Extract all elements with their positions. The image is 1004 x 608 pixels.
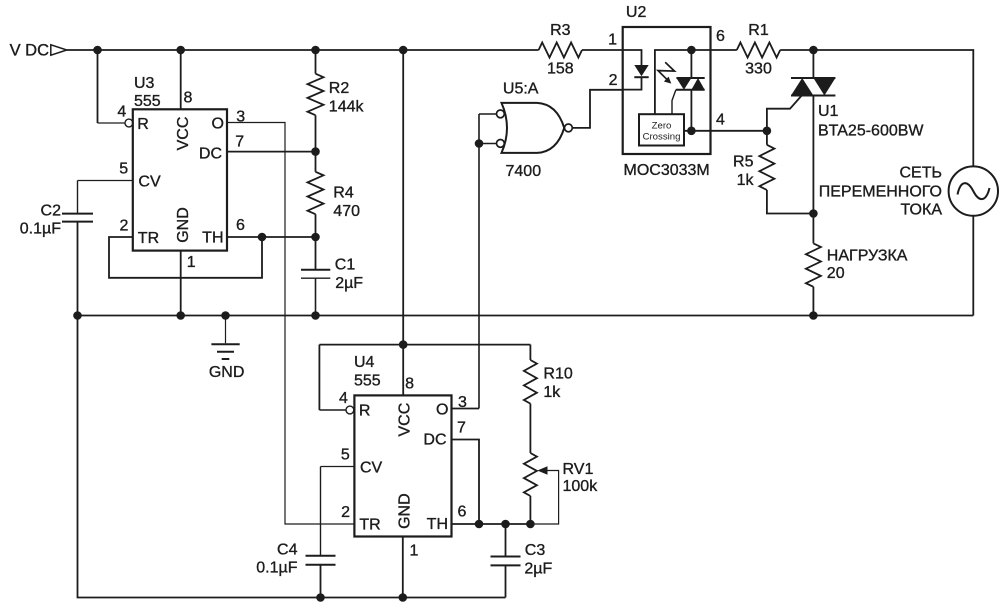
svg-text:0.1µF: 0.1µF: [20, 220, 61, 237]
nand gate U5:A 7400: [497, 81, 573, 180]
svg-text:U5:A: U5:A: [503, 81, 539, 98]
svg-text:8: 8: [184, 90, 193, 107]
wire U3 pin6 TH to R4: [227, 236, 316, 238]
svg-text:6: 6: [458, 504, 467, 521]
svg-text:R4: R4: [333, 185, 354, 202]
svg-text:4: 4: [339, 390, 348, 407]
photo-triac gate wire: [672, 90, 676, 114]
svg-text:BTA25-600BW: BTA25-600BW: [818, 122, 924, 139]
svg-text:СЕТЬ: СЕТЬ: [900, 165, 943, 182]
svg-text:1: 1: [410, 543, 419, 560]
wire U3 pin4 reset from rail: [98, 50, 133, 127]
IC U3 555: [117, 75, 245, 271]
svg-text:CV: CV: [360, 460, 383, 477]
AC source СЕТЬ ПЕРЕМЕННОГО ТОКА: [819, 165, 998, 219]
wire U4 pin4 reset loop: [319, 345, 353, 414]
wire U2 pin6 into photo-triac: [655, 46, 711, 115]
svg-text:1k: 1k: [737, 172, 755, 189]
svg-text:U1: U1: [818, 103, 839, 120]
resistor load НАГРУЗКА 20: [806, 243, 908, 315]
wire R1 to AC source top: [780, 46, 973, 167]
wire U2 pin1 to LED anode: [623, 50, 642, 65]
svg-text:DC: DC: [199, 145, 222, 162]
svg-text:330: 330: [745, 61, 772, 78]
svg-text:20: 20: [827, 265, 845, 282]
wire U4 pin7 DC to TH node: [452, 440, 480, 525]
svg-text:R2: R2: [329, 80, 350, 97]
svg-text:U2: U2: [626, 4, 647, 21]
svg-text:O: O: [436, 402, 448, 419]
wire U3 pin3 output down to U4 TR: [227, 123, 354, 525]
wire U2 pin4 out: [684, 127, 771, 136]
svg-text:TR: TR: [359, 517, 380, 534]
svg-text:C2: C2: [41, 202, 62, 219]
resistor R4 470: [308, 152, 361, 242]
wire U4 pin3 output to NAND drop: [452, 408, 480, 410]
IC U4 555: [339, 354, 467, 559]
svg-text:V DC: V DC: [10, 42, 50, 60]
wire U3 pin1 GND: [180, 251, 182, 316]
svg-text:4: 4: [117, 103, 126, 120]
svg-text:TR: TR: [138, 230, 159, 247]
svg-text:158: 158: [547, 61, 574, 78]
svg-text:O: O: [212, 116, 224, 133]
svg-text:C3: C3: [525, 542, 546, 559]
svg-text:R: R: [137, 116, 149, 133]
svg-text:144k: 144k: [329, 99, 365, 116]
svg-text:2: 2: [609, 72, 618, 89]
svg-text:100k: 100k: [563, 478, 599, 495]
svg-text:1k: 1k: [543, 384, 561, 401]
capacitor C3 2uF: [491, 524, 553, 598]
wire U4 pin6 TH node: [452, 520, 535, 529]
wire U4 pin1 GND: [402, 537, 404, 598]
svg-text:TH: TH: [427, 516, 448, 533]
svg-text:1: 1: [608, 31, 617, 48]
capacitor C4 0.1uF: [256, 467, 335, 598]
svg-text:VCC: VCC: [397, 403, 414, 437]
photon arrow (LED light) inside U2: [658, 62, 675, 83]
wire U1 MT1 down to load: [809, 96, 818, 244]
svg-text:2µF: 2µF: [524, 561, 552, 578]
svg-text:R1: R1: [748, 22, 769, 39]
wire ground rail: [73, 311, 973, 320]
wire U2 pin6 to R1: [711, 49, 737, 51]
svg-text:R10: R10: [543, 365, 572, 382]
svg-text:ТОКА: ТОКА: [901, 202, 943, 219]
svg-text:0.1µF: 0.1µF: [256, 560, 297, 577]
resistor R2 144k: [308, 50, 365, 152]
potentiometer RV1 100k: [524, 453, 598, 524]
svg-text:C1: C1: [335, 257, 356, 274]
svg-text:1: 1: [187, 254, 196, 271]
wire AC source bottom to ground rail: [972, 216, 974, 316]
svg-text:Crossing: Crossing: [643, 132, 681, 143]
node V DC input: [10, 42, 67, 60]
svg-text:2: 2: [341, 504, 350, 521]
wire R3 to U2 pin 1: [582, 49, 623, 51]
wire U1 gate: [767, 96, 802, 131]
wire U3 pin7 DC to R2 R4 junction: [227, 147, 320, 156]
wire U3 pin5 CV: [78, 180, 133, 182]
wire VDC top rail: [67, 46, 539, 55]
svg-text:555: 555: [354, 373, 381, 390]
svg-text:R: R: [359, 403, 371, 420]
svg-text:НАГРУЗКА: НАГРУЗКА: [827, 247, 908, 264]
wire U4 output to NAND inputs: [475, 114, 497, 409]
wire VCC drop to U4 pin8: [399, 50, 408, 395]
svg-text:GND: GND: [209, 364, 245, 381]
svg-text:5: 5: [341, 447, 350, 464]
resistor R3 158: [539, 22, 582, 77]
svg-text:Zero: Zero: [652, 121, 672, 132]
svg-text:RV1: RV1: [563, 461, 594, 478]
LED inside U2: [634, 65, 648, 77]
svg-text:DC: DC: [423, 432, 446, 449]
optocoupler U2 MOC3033M box: [608, 4, 725, 179]
zero crossing block inside U2: [639, 114, 684, 145]
svg-text:2µF: 2µF: [335, 275, 363, 292]
svg-text:GND: GND: [397, 493, 414, 529]
svg-text:6: 6: [236, 217, 245, 234]
svg-text:TH: TH: [202, 230, 223, 247]
photo-triac inside U2: [676, 50, 705, 131]
svg-text:6: 6: [716, 28, 725, 45]
svg-text:R3: R3: [550, 22, 571, 39]
svg-text:7: 7: [457, 420, 466, 437]
resistor R5 1k: [733, 131, 813, 214]
wire LED cathode to U2 pin2: [623, 77, 642, 89]
wire VCC link rail to R10: [319, 344, 530, 346]
svg-text:8: 8: [405, 376, 414, 393]
capacitor C1 2uF: [301, 237, 363, 316]
resistor R10 1k: [524, 345, 573, 453]
svg-text:C4: C4: [277, 542, 298, 559]
svg-text:R5: R5: [733, 154, 754, 171]
triac U1 BTA25-600BW: [791, 50, 924, 139]
svg-text:4: 4: [716, 111, 725, 128]
wire U3 pin2 TR loop to TH: [109, 233, 266, 278]
svg-text:555: 555: [134, 93, 161, 110]
wire NAND output to U2 pin2: [572, 90, 622, 128]
svg-text:2: 2: [119, 217, 128, 234]
svg-text:470: 470: [333, 203, 360, 220]
wire U3 pin8 VCC: [180, 50, 182, 109]
svg-text:ПЕРЕМЕННОГО: ПЕРЕМЕННОГО: [819, 184, 942, 201]
svg-text:U3: U3: [134, 75, 155, 92]
svg-text:GND: GND: [175, 207, 192, 243]
capacitor C2 0.1uF: [20, 181, 93, 316]
wire U4 pin5 CV: [321, 466, 355, 468]
ground GND symbol: [209, 316, 245, 382]
svg-text:CV: CV: [138, 173, 161, 190]
svg-text:MOC3033M: MOC3033M: [624, 162, 710, 179]
svg-text:U4: U4: [354, 354, 375, 371]
svg-text:7: 7: [235, 134, 244, 151]
resistor R1 330: [737, 22, 780, 77]
wire left branch and bottom rail: [78, 316, 506, 602]
svg-text:5: 5: [119, 161, 128, 178]
svg-text:7400: 7400: [506, 163, 542, 180]
svg-text:VCC: VCC: [175, 117, 192, 151]
